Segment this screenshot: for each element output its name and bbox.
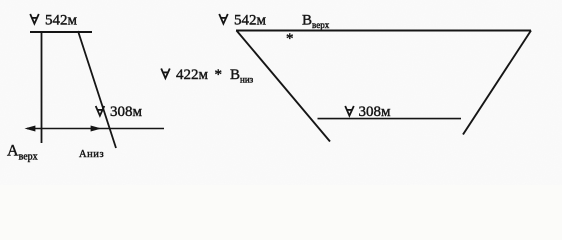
- elevation mark symbol for 542m (left): [30, 14, 39, 24]
- right slope line (right figure): [463, 31, 531, 135]
- elevation mark symbol for 542m (right): [219, 14, 228, 24]
- elevation mark symbol for 308m (right): [345, 106, 354, 116]
- svg-text:308м: 308м: [110, 104, 143, 120]
- svg-text:542м: 542м: [45, 13, 78, 29]
- svg-text:*: *: [215, 67, 223, 83]
- slope line (left figure): [78, 31, 116, 148]
- elevation mark symbol for 308m (left): [96, 106, 105, 116]
- valley bottom line (right figure): [318, 118, 462, 120]
- svg-text:*: *: [286, 31, 294, 47]
- horizontal measuring line with arrows: [26, 126, 164, 131]
- svg-text:Аниз: Аниз: [79, 149, 104, 160]
- svg-text:308м: 308м: [359, 104, 392, 120]
- paper background: [0, 0, 562, 185]
- svg-text:542м: 542м: [234, 13, 267, 29]
- top plateau line (right figure): [236, 30, 531, 32]
- top plateau line (left figure): [30, 31, 92, 33]
- elevation mark symbol for 422m: [161, 69, 170, 79]
- left slope line (right figure): [237, 31, 331, 142]
- vertical cliff edge line: [41, 31, 43, 143]
- svg-text:422м: 422м: [176, 67, 209, 83]
